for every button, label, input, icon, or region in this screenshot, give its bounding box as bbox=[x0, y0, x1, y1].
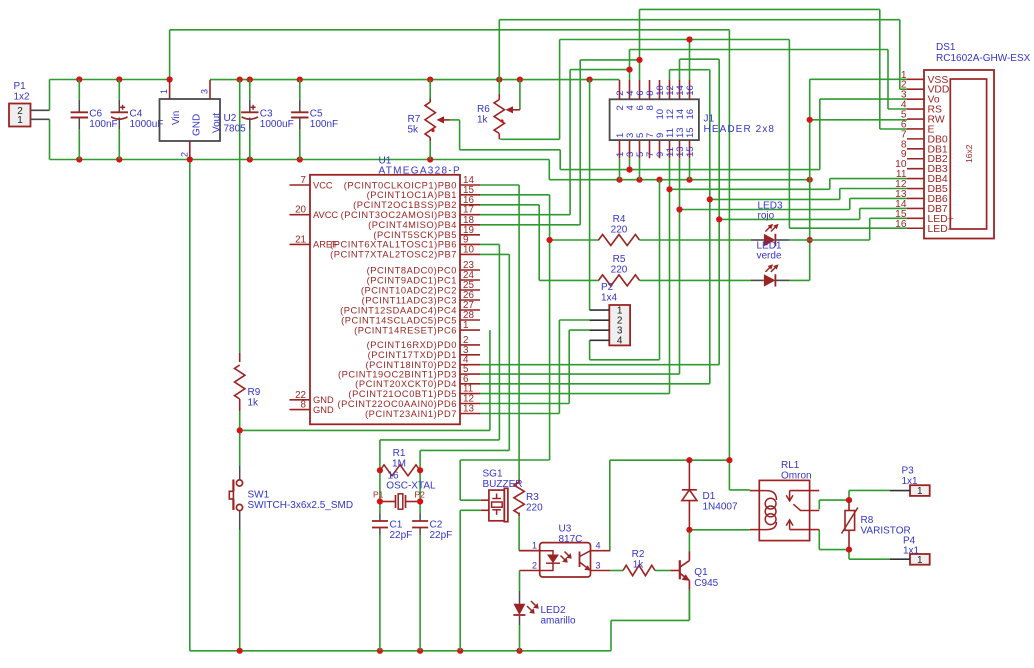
svg-text:(PCINT14RESET)PC6: (PCINT14RESET)PC6 bbox=[354, 325, 457, 335]
svg-text:(PCINT7XTAL2TOSC2)PB7: (PCINT7XTAL2TOSC2)PB7 bbox=[330, 250, 457, 260]
regulator U2 7805 bbox=[160, 99, 221, 141]
connector P4 bbox=[910, 554, 930, 565]
svg-text:16: 16 bbox=[685, 85, 696, 96]
J1 pin 11 stub bottom bbox=[669, 140, 671, 158]
svg-text:220: 220 bbox=[611, 225, 628, 236]
U1 pin 21 AREF bbox=[290, 243, 311, 245]
svg-text:R8: R8 bbox=[861, 515, 874, 526]
node junction R8 bottom bbox=[846, 547, 852, 553]
J1 pin 7 stub bottom bbox=[649, 140, 651, 158]
U1 pin 3 PD1 bbox=[460, 354, 480, 356]
U1 pin 20 AVCC bbox=[290, 214, 311, 216]
wire net GND LCD VSS RW column bbox=[809, 79, 811, 280]
J1 pin 8 stub top bbox=[649, 80, 651, 99]
J1 pin 14 stub top bbox=[679, 80, 681, 99]
DS1 pin 2 VDD bbox=[907, 88, 924, 90]
svg-text:(PCINT0CLKOICP1)PB0: (PCINT0CLKOICP1)PB0 bbox=[344, 180, 457, 190]
svg-text:(PCINT12SDAADC4)PC4: (PCINT12SDAADC4)PC4 bbox=[340, 305, 457, 315]
wire SW1 to ground bbox=[239, 530, 241, 651]
svg-text:DS1: DS1 bbox=[936, 42, 956, 53]
wire net relay NO to R8 bottom and P4 bbox=[818, 530, 820, 550]
wire net XTAL2 PB7 bbox=[480, 253, 510, 255]
U1 pin 8 GND bbox=[290, 409, 311, 411]
svg-text:GND: GND bbox=[313, 405, 334, 415]
node VIN junctions at D1 and relay column bbox=[726, 457, 732, 463]
svg-text:C6: C6 bbox=[89, 108, 102, 119]
svg-text:1: 1 bbox=[463, 320, 468, 331]
buzzer SG1 bbox=[489, 490, 504, 521]
svg-text:HEADER 2x8: HEADER 2x8 bbox=[704, 124, 776, 135]
node E junction at J1 pin6 bbox=[636, 57, 642, 63]
svg-text:C4: C4 bbox=[130, 108, 143, 119]
capacitor C5 bbox=[299, 80, 301, 100]
wire net DB5 J1 pin12 to LCD and PD4 bbox=[669, 70, 671, 80]
svg-text:220: 220 bbox=[611, 265, 628, 276]
U1 pin 4 PD2 bbox=[460, 364, 480, 366]
J1 pin 16 stub top bbox=[689, 80, 691, 99]
capacitor C6 bbox=[78, 80, 80, 100]
svg-text:R7: R7 bbox=[408, 114, 421, 125]
svg-text:P1: P1 bbox=[14, 81, 27, 92]
wire net RESET R9 SW1 PC6 bbox=[239, 411, 241, 466]
svg-text:SWITCH-3x6x2.5_SMD: SWITCH-3x6x2.5_SMD bbox=[248, 500, 354, 511]
resistor R4 bbox=[599, 235, 640, 246]
DS1 pin 9 DB2 bbox=[907, 158, 924, 160]
svg-text:SW1: SW1 bbox=[248, 490, 270, 501]
svg-text:LED2: LED2 bbox=[541, 605, 566, 616]
svg-text:3: 3 bbox=[596, 560, 601, 570]
svg-text:16: 16 bbox=[895, 219, 907, 230]
svg-text:220: 220 bbox=[526, 503, 543, 514]
resistor R2 bbox=[623, 565, 655, 575]
J1 pin 4 stub top bbox=[629, 80, 631, 99]
svg-text:Q1: Q1 bbox=[694, 567, 708, 578]
wire ground branch to P2 pin4 bbox=[659, 180, 661, 360]
svg-text:verde: verde bbox=[757, 251, 782, 262]
svg-text:Vin: Vin bbox=[171, 111, 182, 125]
svg-text:7: 7 bbox=[301, 175, 306, 186]
wire net VIN riser to relay line bbox=[169, 30, 171, 80]
LED1 green indicator bbox=[640, 279, 751, 281]
node RS junction at J1 pin4 bbox=[626, 67, 632, 73]
svg-text:(PCINT23AIN1)PD7: (PCINT23AIN1)PD7 bbox=[365, 409, 457, 419]
node backlight junction at J1 pin16 bbox=[686, 36, 692, 42]
svg-text:2: 2 bbox=[532, 560, 537, 570]
svg-text:(PCINT3OC2AMOSI)PB3: (PCINT3OC2AMOSI)PB3 bbox=[341, 210, 457, 220]
wire net DB6 J1 pin13 to LCD and PD3 bbox=[679, 158, 681, 374]
U1 pin 16 PB2 bbox=[460, 204, 480, 206]
U1 pin 25 PC2 bbox=[460, 289, 480, 291]
resistor R5 bbox=[599, 275, 640, 286]
resistor R3 bbox=[518, 480, 520, 484]
node XTAL2 junction R1 right bbox=[417, 467, 423, 473]
DS1 pin 14 DB7 bbox=[907, 207, 924, 209]
svg-text:1M: 1M bbox=[392, 459, 406, 470]
svg-text:(PCINT19OC2BINT1)PD3: (PCINT19OC2BINT1)PD3 bbox=[338, 369, 457, 379]
svg-text:(PCINT21OC0BT1)PD5: (PCINT21OC0BT1)PD5 bbox=[348, 389, 457, 399]
wire buzzer lower pin to ground bbox=[460, 509, 481, 511]
svg-text:4: 4 bbox=[617, 336, 623, 347]
wire LED1 cathode to ground bbox=[790, 279, 810, 281]
node XTAL1 junction R1 left bbox=[377, 467, 383, 473]
svg-text:(PCINT8ADC0)PC0: (PCINT8ADC0)PC0 bbox=[367, 265, 457, 275]
svg-text:C1: C1 bbox=[390, 520, 403, 531]
DS1 pin 7 DB0 bbox=[907, 138, 924, 140]
U1 pin 28 PC5 bbox=[460, 319, 480, 321]
node VIN junction at U2 Vin bbox=[167, 76, 173, 82]
svg-text:OSC-XTAL: OSC-XTAL bbox=[386, 481, 436, 492]
wire net Q1 base R2 opto pin3 bbox=[610, 570, 623, 572]
U1 pin 24 PC1 bbox=[460, 279, 480, 281]
LED2 yellow indicator bbox=[513, 604, 525, 615]
connector P2 bbox=[609, 305, 630, 345]
svg-text:R1: R1 bbox=[393, 448, 406, 459]
wire LCD backlight LED plus spur bbox=[810, 239, 870, 241]
wire 5V to P2 pin1 bbox=[589, 80, 591, 311]
wire net relay common to R8 top and P3 bbox=[818, 500, 820, 509]
DS1 pin 16 LED- bbox=[907, 227, 924, 229]
wire net VO contrast R7 wiper to J1 pin3 and LCD Vo bbox=[450, 119, 460, 121]
svg-text:U2: U2 bbox=[224, 113, 237, 124]
wire net PB1 to R4 and buzzer bbox=[480, 194, 550, 196]
J1 pin 15 stub bottom bbox=[689, 140, 691, 158]
DS1 pin 15 LED+ bbox=[907, 217, 924, 219]
svg-text:BUZZER: BUZZER bbox=[483, 479, 523, 490]
svg-text:LED-: LED- bbox=[928, 224, 952, 235]
U1 pin 9 PB6 bbox=[460, 243, 480, 245]
connector P1 bbox=[9, 104, 31, 127]
svg-text:100nF: 100nF bbox=[89, 119, 117, 130]
svg-text:U3: U3 bbox=[559, 524, 572, 535]
J1 pin 6 stub top bbox=[639, 80, 641, 99]
DS1 pin 13 DB6 bbox=[907, 197, 924, 199]
crystal 16 OSC-XTAL bbox=[380, 501, 396, 503]
wire net backlight R6 bottom to J1 pin16 and LCD LED minus bbox=[500, 138, 559, 140]
svg-text:22pF: 22pF bbox=[390, 530, 413, 541]
svg-text:1000uF: 1000uF bbox=[260, 119, 294, 130]
U1 pin 13 PD7 bbox=[460, 413, 480, 415]
DS1 pin 10 DB3 bbox=[907, 168, 924, 170]
relay RL1 Omron bbox=[759, 480, 809, 540]
svg-text:1k: 1k bbox=[477, 115, 489, 126]
svg-text:21: 21 bbox=[295, 234, 306, 245]
wire net VIN input rail bbox=[49, 80, 51, 111]
svg-text:16: 16 bbox=[685, 109, 696, 120]
wire J1 pin1 ground drop bbox=[619, 158, 621, 180]
svg-text:(PCINT6XTAL1TOSC1)PB6: (PCINT6XTAL1TOSC1)PB6 bbox=[330, 240, 457, 250]
header J1 box bbox=[610, 99, 699, 140]
capacitor C3 bbox=[249, 80, 251, 100]
J1 pin 5 stub bottom bbox=[639, 140, 641, 158]
svg-text:(PCINT11ADC3)PC3: (PCINT11ADC3)PC3 bbox=[362, 295, 457, 305]
wire net VIN relay branch bbox=[728, 460, 730, 490]
svg-text:(PCINT22OC0AAIN0)PD6: (PCINT22OC0AAIN0)PD6 bbox=[338, 399, 458, 409]
svg-text:(PCINT9ADC1)PC1: (PCINT9ADC1)PC1 bbox=[367, 275, 457, 285]
svg-text:VCC: VCC bbox=[313, 180, 333, 190]
svg-text:13: 13 bbox=[463, 404, 474, 415]
node GND junctions at C6 C4 C3 C5 R7 bottom bbox=[76, 156, 82, 162]
diode D1 1N4007 bbox=[688, 460, 690, 490]
svg-text:(PCINT1OC1A)PB1: (PCINT1OC1A)PB1 bbox=[367, 190, 457, 200]
wire net PB3 RS to J1 pin4 and LCD RS bbox=[480, 214, 570, 216]
U1 pin 6 PD4 bbox=[460, 383, 480, 385]
wire net PB4 E to J1 pin6 and LCD E bbox=[480, 224, 581, 226]
DS1 pin 12 DB5 bbox=[907, 188, 924, 190]
U1 pin 18 PB4 bbox=[460, 224, 480, 226]
node GND rail junctions bottom bbox=[237, 648, 243, 654]
wire U3 pin4 to relay net bbox=[609, 460, 611, 551]
resistor R9 bbox=[239, 353, 241, 362]
capacitor C4 bbox=[118, 80, 120, 100]
svg-text:1000uF: 1000uF bbox=[130, 119, 164, 130]
svg-text:1N4007: 1N4007 bbox=[703, 502, 738, 513]
LCD module DS1 box bbox=[924, 70, 994, 239]
U1 pin 12 PD6 bbox=[460, 403, 480, 405]
svg-text:(PCINT20XCKT0)PD4: (PCINT20XCKT0)PD4 bbox=[355, 379, 457, 389]
svg-text:1: 1 bbox=[532, 541, 537, 551]
U1 pin 2 PD0 bbox=[460, 344, 480, 346]
wire net PB2 to R5 bbox=[480, 204, 540, 206]
svg-text:1: 1 bbox=[917, 555, 923, 566]
wire J1 pin3 drop to Vo bbox=[629, 158, 631, 169]
U1 pin 11 PD5 bbox=[460, 393, 480, 395]
wire net P2 pin2 to PD7 bbox=[559, 319, 589, 321]
svg-text:15: 15 bbox=[685, 146, 696, 157]
svg-text:P1: P1 bbox=[373, 490, 384, 500]
svg-text:P2: P2 bbox=[601, 282, 614, 293]
svg-text:2: 2 bbox=[179, 152, 189, 157]
U1 pin 5 PD3 bbox=[460, 373, 480, 375]
wire net PB0 to R3 and opto pin1 bbox=[480, 184, 519, 186]
potentiometer R6 bbox=[498, 94, 500, 100]
wire 5V to R6 wiper bbox=[519, 80, 521, 110]
svg-text:20: 20 bbox=[295, 205, 306, 216]
node PB1 junction at R4 left bbox=[547, 237, 553, 243]
svg-text:ATMEGA328-P: ATMEGA328-P bbox=[379, 166, 461, 177]
DS1 pin 5 RW bbox=[907, 118, 924, 120]
U1 pin 14 PB0 bbox=[460, 184, 480, 186]
svg-text:(PCINT17TXD)PD1: (PCINT17TXD)PD1 bbox=[368, 350, 457, 360]
node DB6 junction at J1 pin13 bbox=[676, 206, 682, 212]
svg-text:GND: GND bbox=[192, 114, 203, 136]
LED3 red indicator bbox=[640, 239, 751, 241]
node GND junction at U2 GND pin bbox=[187, 156, 193, 162]
node junction D1 anode Q1 collector bbox=[686, 527, 692, 533]
svg-text:R3: R3 bbox=[526, 492, 539, 503]
node GND junctions on LCD column bbox=[807, 117, 813, 123]
svg-text:1k: 1k bbox=[633, 560, 645, 571]
svg-text:1x4: 1x4 bbox=[601, 293, 618, 304]
svg-text:R6: R6 bbox=[477, 104, 490, 115]
svg-text:AREF: AREF bbox=[313, 240, 338, 250]
svg-text:amarillo: amarillo bbox=[541, 616, 576, 627]
svg-text:3: 3 bbox=[200, 89, 210, 94]
svg-text:Omron: Omron bbox=[781, 471, 812, 482]
wire J1 pin15 ground drop bbox=[689, 158, 691, 180]
svg-text:1: 1 bbox=[159, 89, 169, 94]
J1 pin 3 stub bottom bbox=[629, 140, 631, 158]
wire net XTAL1 PB6 bbox=[480, 243, 500, 245]
svg-text:P3: P3 bbox=[902, 466, 915, 477]
svg-text:1k: 1k bbox=[248, 398, 260, 409]
svg-text:1: 1 bbox=[917, 486, 923, 497]
svg-text:(PCINT4MISO)PB4: (PCINT4MISO)PB4 bbox=[368, 220, 457, 230]
svg-text:AVCC: AVCC bbox=[313, 210, 338, 220]
U1 pin 1 PC6 bbox=[460, 329, 480, 331]
svg-text:C5: C5 bbox=[310, 108, 323, 119]
svg-text:(PCINT5SCK)PB5: (PCINT5SCK)PB5 bbox=[373, 230, 457, 240]
svg-text:1x1: 1x1 bbox=[903, 546, 920, 557]
svg-text:7805: 7805 bbox=[224, 124, 247, 135]
U1 pin 10 PB7 bbox=[460, 253, 480, 255]
U1 pin 27 PC4 bbox=[460, 309, 480, 311]
J1 pin 13 stub bottom bbox=[679, 140, 681, 158]
svg-text:10: 10 bbox=[463, 244, 474, 255]
svg-text:R9: R9 bbox=[248, 387, 261, 398]
svg-text:P2: P2 bbox=[415, 490, 426, 500]
DS1 pin 4 RS bbox=[907, 108, 924, 110]
svg-text:1x2: 1x2 bbox=[14, 92, 31, 103]
DS1 pin 3 Vo bbox=[907, 98, 924, 100]
wire J1 pin5 ground drop bbox=[639, 158, 641, 180]
svg-text:4: 4 bbox=[596, 541, 601, 551]
svg-text:100nF: 100nF bbox=[310, 119, 338, 130]
resistor R1 bbox=[380, 465, 420, 476]
J1 pin 2 stub top bbox=[619, 80, 621, 99]
node DB7 junction bbox=[716, 216, 722, 222]
U1 pin 15 PB1 bbox=[460, 194, 480, 196]
node VIN junctions at C6 C4 top bbox=[76, 76, 82, 82]
svg-text:R4: R4 bbox=[613, 214, 626, 225]
J1 pin 12 stub top bbox=[669, 80, 671, 99]
svg-text:C945: C945 bbox=[694, 578, 718, 589]
U1 pin 7 VCC bbox=[290, 184, 311, 186]
svg-text:8: 8 bbox=[301, 400, 307, 411]
svg-text:rojo: rojo bbox=[758, 211, 775, 222]
svg-text:15: 15 bbox=[685, 127, 696, 138]
wire net DB4 J1 pin11 to LCD and PD5 bbox=[669, 158, 671, 393]
switch SW1 bbox=[239, 466, 241, 480]
svg-text:(PCINT14SCLADC5)PC5: (PCINT14SCLADC5)PC5 bbox=[341, 315, 457, 325]
U1 pin 17 PB3 bbox=[460, 214, 480, 216]
wire 5V to R7 top bbox=[429, 80, 431, 99]
svg-text:SG1: SG1 bbox=[483, 469, 503, 480]
svg-text:817C: 817C bbox=[559, 534, 583, 545]
svg-text:C2: C2 bbox=[430, 520, 443, 531]
U1 pin 22 GND bbox=[290, 399, 311, 401]
J1 pin 9 stub bottom bbox=[659, 140, 661, 158]
svg-text:C3: C3 bbox=[260, 108, 273, 119]
potentiometer R7 bbox=[429, 99, 431, 103]
node RESET junction bbox=[237, 427, 243, 433]
svg-text:GND: GND bbox=[313, 395, 334, 405]
varistor R8 bbox=[848, 500, 850, 510]
svg-text:1: 1 bbox=[17, 115, 23, 126]
svg-text:(PCINT2OC1BSS)PB2: (PCINT2OC1BSS)PB2 bbox=[353, 200, 457, 210]
capacitor C1 bbox=[372, 520, 388, 522]
svg-text:16x2: 16x2 bbox=[964, 144, 974, 163]
wire net GND bus to header bbox=[548, 160, 550, 180]
node GND bus junctions J1 pins 1 5 9 15 and LCD column bbox=[616, 177, 622, 183]
DS1 pin 6 E bbox=[907, 128, 924, 130]
capacitor C2 bbox=[412, 520, 428, 522]
DS1 pin 8 DB1 bbox=[907, 148, 924, 150]
U1 pin 23 PC0 bbox=[460, 269, 480, 271]
J1 pin 1 stub bottom bbox=[619, 140, 621, 158]
wire net GND bottom rail bbox=[50, 159, 550, 161]
svg-text:J1: J1 bbox=[704, 114, 715, 125]
svg-text:D1: D1 bbox=[703, 491, 716, 502]
svg-text:RL1: RL1 bbox=[781, 460, 800, 471]
svg-text:RC1602A-GHW-ESX: RC1602A-GHW-ESX bbox=[936, 53, 1031, 64]
svg-text:Vout: Vout bbox=[212, 113, 223, 133]
wire 5V to R6 top and LCD VDD line bbox=[498, 20, 500, 94]
wire net P2 pin3 to PD6 bbox=[569, 329, 589, 331]
node Vo junction at J1 pin3 bbox=[626, 167, 632, 173]
wire net DB7 J1 pin14 to LCD and PD2 bbox=[679, 59, 681, 80]
microcontroller U1 ATMEGA328-P bbox=[310, 175, 460, 424]
node 5V rail junctions bbox=[237, 77, 243, 83]
U1 pin 19 PB5 bbox=[460, 234, 480, 236]
optocoupler U3 817C bbox=[540, 543, 591, 577]
wire net opto pin2 LED2 bbox=[519, 571, 521, 592]
DS1 pin 11 DB4 bbox=[907, 178, 924, 180]
node DB5 junction bbox=[707, 196, 713, 202]
node DB4 junction at J1 pin11 bbox=[666, 186, 672, 192]
svg-text:5k: 5k bbox=[408, 125, 420, 136]
svg-text:(PCINT10ADC2)PC2: (PCINT10ADC2)PC2 bbox=[361, 285, 457, 295]
svg-text:R2: R2 bbox=[632, 549, 645, 560]
svg-text:(PCINT16RXD)PD0: (PCINT16RXD)PD0 bbox=[367, 340, 457, 350]
wire net 5V rail bbox=[210, 79, 620, 81]
wire net Q1 collector relay coil low side bbox=[689, 529, 749, 531]
J1 pin 10 stub top bbox=[659, 80, 661, 99]
svg-text:22pF: 22pF bbox=[430, 530, 453, 541]
svg-text:1x1: 1x1 bbox=[902, 476, 919, 487]
connector P3 bbox=[910, 485, 930, 496]
transistor Q1 C945 bbox=[679, 560, 681, 579]
svg-text:R5: R5 bbox=[613, 254, 626, 265]
wire 5V to R9 bbox=[239, 80, 241, 353]
U1 pin 26 PC3 bbox=[460, 299, 480, 301]
DS1 pin 1 VSS bbox=[907, 78, 924, 80]
node junction R8 top bbox=[846, 497, 852, 503]
